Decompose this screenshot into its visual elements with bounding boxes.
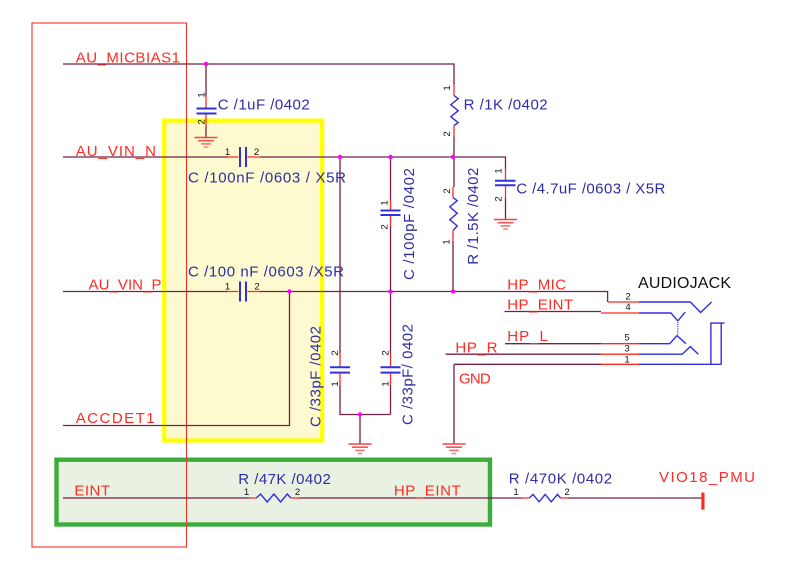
capacitor C7 33pF plates: [381, 367, 401, 372]
svg-text:2: 2: [494, 196, 505, 201]
junction node dots: [204, 62, 455, 417]
wire GND: [454, 364, 601, 444]
wire R1K-R1.5K column: [453, 137, 454, 292]
wire HP_R: [446, 353, 601, 355]
pins C6 33pF: [339, 354, 341, 385]
svg-text:3: 3: [624, 344, 629, 355]
svg-text:C /33pF /0402: C /33pF /0402: [307, 326, 324, 427]
svg-text:4: 4: [625, 302, 631, 313]
ground under 33pF join: [349, 444, 372, 454]
wire HP_L: [505, 343, 601, 345]
capacitor C2 100nF plates: [240, 147, 246, 167]
svg-text:GND: GND: [459, 371, 491, 388]
pins R2 1.5K: [452, 187, 454, 241]
capacitor C4 100pF plates: [381, 211, 401, 216]
capacitor C5 4.7uF plates: [495, 181, 516, 185]
svg-text:C /1uF /0402: C /1uF /0402: [218, 97, 310, 114]
svg-text:2: 2: [380, 224, 391, 229]
svg-text:AU_MICBIAS1: AU_MICBIAS1: [76, 50, 180, 67]
svg-text:1: 1: [380, 200, 391, 205]
svg-text:HP_MIC: HP_MIC: [507, 277, 566, 294]
pins R3 47K: [249, 497, 299, 499]
jack contact pin 5: [639, 336, 686, 344]
wire 33pF branch left: [340, 157, 391, 444]
svg-text:HP_R: HP_R: [455, 340, 497, 357]
svg-text:2: 2: [442, 131, 453, 136]
svg-text:EINT: EINT: [74, 483, 110, 500]
jack switch dotted link: [677, 322, 679, 335]
svg-text:VIO18_PMU: VIO18_PMU: [659, 469, 755, 486]
svg-text:2: 2: [254, 282, 259, 293]
wire C4.7uF stem: [505, 198, 507, 220]
svg-text:1: 1: [442, 85, 453, 90]
ground for GND net: [443, 444, 466, 454]
svg-text:R /47K /0402: R /47K /0402: [238, 471, 330, 488]
resistor R2 R/1.5K zigzag: [450, 198, 457, 231]
wire C1uF stem: [205, 64, 207, 138]
svg-text:2: 2: [295, 487, 300, 498]
svg-text:C /100pF /0402: C /100pF /0402: [401, 168, 418, 280]
capacitor C1 1uF plates: [197, 109, 217, 114]
highlight box yellow: [164, 121, 322, 441]
pins C5 4.7uF: [505, 169, 507, 198]
svg-text:HP_L: HP_L: [507, 328, 548, 345]
audio jack symbol: [639, 302, 725, 364]
wire ACCDET1: [63, 292, 290, 426]
red component pin stubs: [206, 85, 639, 499]
svg-text:1: 1: [624, 355, 629, 366]
svg-text:HP_EINT: HP_EINT: [507, 297, 573, 314]
pins C2 100nF: [228, 156, 260, 158]
svg-text:1: 1: [442, 239, 453, 244]
wire AU_VIN_N: [63, 157, 506, 169]
pins C1 1uF: [205, 96, 207, 127]
pins R1 R/1K: [453, 85, 455, 137]
svg-text:ACCDET1: ACCDET1: [76, 410, 155, 427]
wire AU_MICBIAS1: [63, 64, 454, 85]
svg-text:C /33pF/ 0402: C /33pF/ 0402: [400, 324, 417, 425]
jack contact pin 3: [639, 347, 698, 355]
ground under C1: [195, 138, 218, 148]
pins C7 33pF: [390, 354, 392, 385]
resistor R3 R/47K zigzag: [256, 494, 290, 502]
wire AU_VIN_P / HP_MIC: [63, 292, 608, 303]
svg-text:1: 1: [225, 147, 230, 158]
capacitor C3 100nF plates: [240, 282, 246, 302]
jack tip contact pin 2: [639, 302, 712, 313]
svg-text:2: 2: [442, 188, 453, 193]
svg-text:AUDIOJACK: AUDIOJACK: [638, 275, 731, 292]
svg-text:5: 5: [624, 333, 629, 344]
pins R4 470K: [522, 497, 568, 499]
svg-text:1: 1: [381, 381, 392, 386]
svg-text:AU_VIN_N: AU_VIN_N: [76, 143, 156, 160]
wire 33pF branch right / 100pF branch: [390, 157, 392, 415]
pins C3 100nF: [228, 291, 260, 293]
svg-text:2: 2: [254, 147, 259, 158]
svg-text:2: 2: [197, 119, 208, 124]
sheet symbol border: [32, 23, 187, 547]
resistor R1 R/1K zigzag: [451, 96, 458, 126]
jack pin stubs: [601, 302, 639, 364]
svg-text:2: 2: [564, 487, 569, 498]
svg-text:R /1K /0402: R /1K /0402: [464, 97, 548, 114]
jack sleeve pin 1: [639, 323, 725, 364]
ground under C5: [494, 220, 517, 230]
svg-text:C /4.7uF /0603 / X5R: C /4.7uF /0603 / X5R: [516, 181, 665, 198]
svg-text:C /100 nF /0603 /X5R: C /100 nF /0603 /X5R: [188, 264, 344, 281]
svg-text:1: 1: [197, 92, 208, 97]
svg-text:1: 1: [244, 487, 249, 498]
jack contact pin 4: [639, 312, 685, 321]
pins C4 100pF: [390, 199, 392, 227]
svg-text:AU_VIN_P: AU_VIN_P: [89, 277, 162, 294]
pin numbers C1: [197, 85, 632, 498]
svg-text:1: 1: [225, 282, 230, 293]
svg-text:2: 2: [381, 350, 392, 355]
highlight box green: [57, 460, 491, 525]
capacitor C6 33pF plates: [330, 367, 350, 372]
power port VIO18_PMU bar: [701, 493, 704, 510]
svg-text:C /100nF /0603 / X5R: C /100nF /0603 / X5R: [188, 170, 346, 187]
wire HP_EINT: [505, 311, 602, 313]
wire EINT / HP_EINT / R47K-R470K run: [63, 497, 703, 499]
svg-text:1: 1: [494, 168, 505, 173]
svg-text:1: 1: [513, 487, 518, 498]
svg-text:R /470K /0402: R /470K /0402: [509, 471, 612, 488]
svg-text:R /1.5K /0402: R /1.5K /0402: [465, 168, 482, 265]
svg-text:1: 1: [330, 381, 341, 386]
resistor R4 R/470K zigzag: [529, 494, 560, 501]
svg-text:2: 2: [330, 350, 341, 355]
svg-text:2: 2: [625, 291, 630, 302]
svg-text:HP_EINT: HP_EINT: [394, 483, 461, 500]
